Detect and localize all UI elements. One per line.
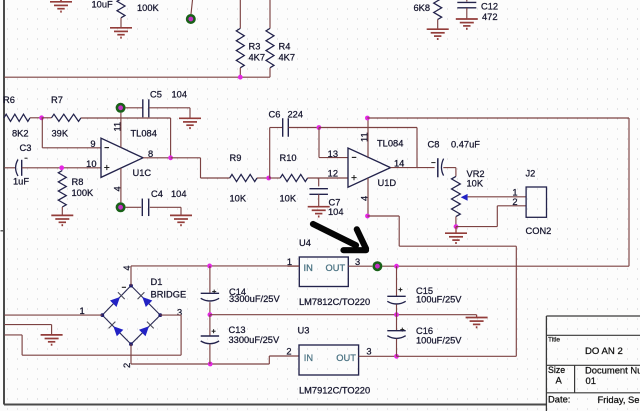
svg-text:C8: C8 [428, 140, 440, 150]
svg-text:J2: J2 [526, 169, 536, 179]
svg-text:10K: 10K [280, 194, 297, 204]
svg-text:R3: R3 [249, 42, 261, 52]
svg-text:CON2: CON2 [526, 226, 552, 236]
svg-text:2: 2 [512, 197, 517, 207]
svg-text:100uF/25V: 100uF/25V [416, 294, 462, 304]
svg-text:104: 104 [328, 207, 344, 217]
svg-text:Size: Size [548, 365, 565, 375]
svg-text:VR2: VR2 [467, 169, 485, 179]
svg-text:10uF: 10uF [92, 0, 114, 10]
svg-text:Title: Title [548, 337, 560, 344]
svg-text:Document Nu: Document Nu [585, 364, 640, 375]
svg-text:14: 14 [394, 159, 404, 169]
svg-text:472: 472 [482, 12, 498, 22]
svg-text:R4: R4 [279, 42, 291, 52]
svg-text:1: 1 [80, 306, 85, 316]
svg-text:01: 01 [586, 375, 596, 386]
svg-text:3300uF/25V: 3300uF/25V [229, 294, 280, 304]
svg-text:10: 10 [86, 159, 96, 169]
svg-text:IN: IN [304, 263, 313, 273]
svg-text:10K: 10K [467, 179, 484, 189]
svg-text:3: 3 [355, 257, 360, 267]
svg-text:C4: C4 [151, 189, 163, 199]
svg-text:OUT: OUT [326, 263, 346, 273]
svg-text:8K2: 8K2 [12, 129, 29, 139]
svg-text:R6: R6 [3, 95, 15, 105]
svg-text:4K7: 4K7 [279, 53, 296, 63]
svg-text:A: A [556, 375, 563, 386]
svg-text:100K: 100K [72, 188, 95, 198]
svg-text:U4: U4 [299, 238, 311, 248]
svg-text:2: 2 [286, 346, 291, 356]
svg-text:LM7912C/TO220: LM7912C/TO220 [299, 386, 370, 396]
svg-text:R10: R10 [280, 153, 297, 163]
svg-text:0.47uF: 0.47uF [451, 140, 480, 150]
svg-text:C7: C7 [329, 198, 341, 208]
svg-text:U1C: U1C [133, 168, 152, 178]
svg-text:4K7: 4K7 [249, 53, 266, 63]
svg-text:104: 104 [171, 189, 187, 199]
svg-text:13: 13 [328, 149, 338, 159]
svg-text:TL084: TL084 [131, 129, 157, 139]
svg-text:BRIDGE: BRIDGE [151, 289, 187, 299]
svg-text:39K: 39K [52, 129, 69, 139]
svg-text:100K: 100K [137, 3, 160, 13]
svg-text:1: 1 [287, 257, 292, 267]
svg-text:10K: 10K [230, 194, 247, 204]
svg-text:R7: R7 [51, 95, 63, 105]
svg-text:C3: C3 [20, 143, 32, 153]
svg-text:Date:: Date: [548, 393, 570, 404]
svg-text:9: 9 [90, 139, 95, 149]
svg-text:U3: U3 [298, 326, 310, 336]
svg-text:Friday, Sep: Friday, Sep [598, 394, 640, 405]
svg-text:224: 224 [288, 110, 304, 120]
svg-text:OUT: OUT [336, 353, 356, 363]
svg-text:LM7812C/TO220: LM7812C/TO220 [299, 297, 370, 307]
svg-text:C13: C13 [229, 325, 246, 335]
svg-text:3300uF/25V: 3300uF/25V [229, 335, 280, 345]
svg-text:C5: C5 [150, 90, 162, 100]
svg-text:3: 3 [366, 346, 371, 356]
svg-text:TL084: TL084 [377, 139, 403, 149]
svg-text:1uF: 1uF [13, 177, 29, 187]
svg-text:C6: C6 [269, 110, 281, 120]
svg-text:C12: C12 [481, 2, 498, 12]
svg-text:6K8: 6K8 [414, 3, 431, 13]
svg-text:100uF/25V: 100uF/25V [416, 335, 462, 345]
svg-text:U1D: U1D [378, 178, 397, 188]
svg-text:12: 12 [328, 169, 338, 179]
svg-text:104: 104 [172, 90, 188, 100]
svg-text:R9: R9 [230, 153, 242, 163]
svg-text:1: 1 [512, 188, 517, 198]
svg-text:D1: D1 [151, 277, 163, 287]
svg-text:4: 4 [122, 265, 132, 270]
svg-text:IN: IN [304, 353, 313, 363]
svg-text:DO AN 2: DO AN 2 [585, 346, 623, 357]
svg-text:R8: R8 [72, 177, 84, 187]
